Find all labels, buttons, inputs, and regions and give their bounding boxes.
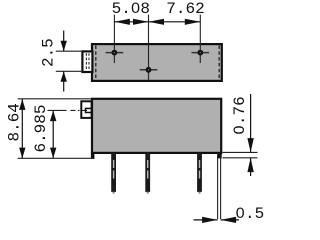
svg-text:5.08: 5.08 bbox=[112, 0, 150, 18]
dimension 5.08 line bbox=[114, 21, 148, 23]
boss hidden line 1 bbox=[85, 53, 87, 70]
dimension 0.5 bbox=[194, 155, 240, 223]
svg-text:7.62: 7.62 bbox=[166, 0, 204, 18]
screw head (side view) bbox=[81, 101, 91, 118]
boss hidden line 2 bbox=[88, 53, 90, 70]
dimension 2.5 bbox=[56, 31, 82, 92]
pin 3 (top view) bbox=[192, 50, 210, 63]
pin 2 (side view) bbox=[145, 153, 150, 194]
pin 1 (top view) bbox=[106, 50, 124, 63]
screw centerline bbox=[71, 109, 89, 111]
pin 2 (top view) bbox=[140, 67, 158, 80]
extension line pin3 bbox=[199, 15, 201, 50]
svg-text:0.76: 0.76 bbox=[231, 96, 249, 134]
dimension 8.64 bbox=[18, 99, 92, 159]
dimension 6.985 bbox=[48, 110, 67, 158]
extension line pin2 bbox=[148, 15, 150, 67]
svg-text:8.64: 8.64 bbox=[6, 103, 24, 141]
extension line pin1 bbox=[113, 15, 115, 50]
dimension 0.76 bbox=[223, 94, 258, 176]
adjuster boss (top view) bbox=[82, 51, 92, 72]
right foot bbox=[217, 153, 221, 159]
side view body bbox=[92, 99, 221, 153]
left foot bbox=[91, 153, 95, 159]
zero-dot patches bbox=[134, 6, 137, 10]
dimension 7.62 line bbox=[149, 21, 201, 23]
pin 1 (side view) bbox=[111, 153, 116, 194]
svg-text:6.985: 6.985 bbox=[32, 104, 50, 152]
pin 3 (side view) bbox=[197, 153, 202, 194]
svg-text:2.5: 2.5 bbox=[40, 38, 58, 67]
top view hidden line right bbox=[218, 46, 220, 80]
top view hidden line left bbox=[95, 46, 97, 80]
top view body bbox=[92, 44, 222, 81]
